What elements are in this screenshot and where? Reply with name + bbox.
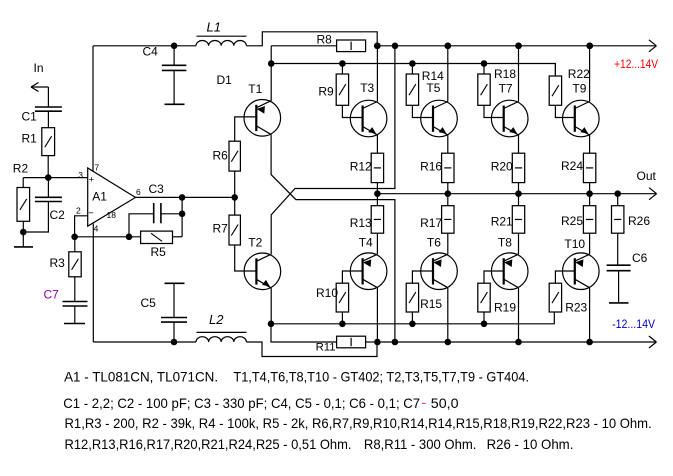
svg-text:R2: R2: [13, 162, 29, 176]
wire T5 collector: [447, 46, 449, 102]
wire In to C1: [47, 87, 49, 107]
node bottom rail col2: [445, 339, 452, 346]
svg-text:T10: T10: [564, 237, 585, 251]
node base rail R14: [409, 60, 416, 67]
wire R19 to base rail: [483, 312, 485, 324]
wire R17 to T6 emitter: [447, 233, 449, 254]
svg-text:R1: R1: [22, 132, 38, 146]
node base rail R9: [339, 60, 346, 67]
svg-text:-12...14V: -12...14V: [612, 319, 655, 331]
capacitor C4: [162, 64, 187, 66]
capacitor C7: [63, 301, 88, 303]
node base rail R18: [481, 60, 488, 67]
wire R3 to C7: [74, 277, 76, 302]
resistor R7: [229, 215, 240, 245]
svg-text:T8: T8: [498, 235, 512, 249]
wire T3 collector: [376, 46, 378, 102]
wire R10 to base rail: [341, 312, 343, 324]
wire T7 emitter: [518, 135, 520, 153]
capacitor C1: [35, 106, 62, 108]
node bottom rail col4: [586, 339, 593, 346]
wire to R2: [22, 178, 24, 188]
svg-text:T2: T2: [248, 235, 262, 249]
wire T9 collector: [589, 46, 591, 102]
transistor T8: [491, 253, 528, 290]
capacitor C2 top lead: [47, 178, 49, 198]
wire R25 to T10 emitter: [589, 233, 591, 254]
node +V rail col3: [515, 43, 522, 50]
wire R6 to node: [234, 171, 236, 197]
svg-text:C2: C2: [50, 208, 66, 222]
svg-text:R24: R24: [561, 159, 583, 173]
wire R15 to base rail: [411, 312, 413, 324]
node C3 right junction: [179, 211, 186, 218]
capacitor C5: [161, 317, 187, 319]
wire R20 to out rail: [518, 183, 520, 194]
transistor T5: [421, 100, 458, 137]
resistor R26: [612, 206, 624, 234]
wire R26 top lead: [617, 194, 619, 206]
resistor R15: [406, 283, 418, 312]
svg-text:3: 3: [78, 170, 83, 180]
svg-text:C6: C6: [632, 251, 648, 265]
wire C2 to gnd node: [23, 202, 48, 233]
svg-text:A1 - TL081CN, TL071CN.: A1 - TL081CN, TL071CN.: [64, 369, 218, 385]
node out rail col2: [445, 190, 452, 197]
svg-text:T7: T7: [499, 82, 513, 96]
svg-text:R18: R18: [494, 67, 516, 81]
svg-text:R26 - 10 Ohm.: R26 - 10 Ohm.: [487, 436, 574, 452]
svg-text:2: 2: [76, 206, 81, 216]
wire pin7 rail: [93, 45, 196, 47]
wire R23 to T10 base: [555, 271, 574, 283]
wire C4 bottom lead: [173, 70, 175, 104]
wire base rail node to R11: [271, 324, 337, 342]
svg-text:R21: R21: [491, 215, 513, 229]
resistor R25: [583, 206, 595, 234]
svg-text:Out: Out: [637, 169, 657, 183]
wire out rail to R21: [518, 194, 520, 206]
transistor T4: [350, 253, 387, 290]
node base rail left: [268, 60, 275, 67]
wire base rail to R9: [341, 64, 343, 75]
resistor R10: [336, 283, 348, 312]
transistor T6: [421, 253, 458, 290]
capacitor C5 top lead: [173, 283, 175, 317]
node R5/C3 left junction: [126, 234, 133, 241]
resistor R16: [442, 153, 454, 182]
pin 2 wire: [75, 216, 88, 237]
wire R18 to T7 base: [484, 105, 504, 117]
resistor R18: [478, 74, 490, 105]
op-amp A1: [88, 168, 136, 226]
svg-text:4: 4: [94, 223, 99, 233]
resistor R20: [512, 153, 524, 182]
svg-text:R15: R15: [420, 297, 442, 311]
wire Out rail: [377, 193, 656, 195]
resistor R3: [69, 252, 81, 277]
svg-text:T1: T1: [248, 82, 262, 96]
svg-text:T5: T5: [426, 81, 440, 95]
resistor R13: [371, 206, 383, 234]
ground C6: [609, 302, 629, 304]
capacitor C3: [153, 203, 155, 223]
node R6/R7 junction: [231, 194, 238, 201]
svg-text:R16: R16: [420, 159, 442, 173]
node junction R1/C2/pin3: [45, 174, 52, 181]
wire node to R7: [234, 197, 236, 215]
svg-text:T9: T9: [572, 82, 586, 96]
wire R26 to C6: [617, 233, 619, 265]
svg-text:T4: T4: [359, 235, 373, 249]
node -V rail bypass junction: [392, 339, 399, 346]
svg-text:R5: R5: [151, 245, 167, 259]
node bottom base rail left: [268, 321, 275, 328]
resistor R12: [371, 153, 383, 182]
transistor T2: [244, 253, 281, 290]
wire base rail to R22: [554, 64, 556, 77]
svg-text:R12,R13,R16,R17,R20,R21,R24,R2: R12,R13,R16,R17,R20,R21,R24,R25 - 0,51 O…: [65, 436, 352, 452]
wire T2 emitter: [270, 288, 272, 324]
svg-text:T6: T6: [427, 235, 441, 249]
ground C7: [64, 323, 85, 325]
wire pin3 net: [23, 177, 88, 179]
svg-text:T1,T4,T6,T8,T10 - GT402; T2,T3: T1,T4,T6,T8,T10 - GT402; T2,T3,T5,T7,T9 …: [233, 369, 529, 385]
wire R1 to node: [47, 156, 49, 178]
capacitor C4 top lead: [173, 46, 175, 66]
wire R11 right lead: [366, 341, 377, 343]
wire T5 emitter: [447, 135, 449, 153]
node bottom base rail R15: [409, 321, 416, 328]
resistor R5: [141, 231, 173, 243]
svg-text:-: -: [422, 394, 427, 410]
wire T9 emitter: [589, 135, 591, 153]
svg-text:R6: R6: [213, 148, 229, 162]
wire T8 collector: [518, 288, 520, 342]
node output C3 junction: [179, 194, 186, 201]
node +V rail col1: [374, 43, 381, 50]
svg-text:L2: L2: [209, 312, 224, 327]
wire T1 base: [235, 117, 257, 141]
wire pin4 rail: [93, 341, 196, 343]
inductor L2: [196, 337, 246, 342]
capacitor C6: [607, 264, 631, 266]
node C5 junction: [171, 339, 178, 346]
node bottom base rail R10: [339, 321, 346, 328]
transistor T7: [491, 100, 528, 137]
svg-text:+: +: [89, 174, 95, 185]
pin 7 stub: [92, 46, 94, 172]
wire op-amp output: [136, 196, 235, 198]
wire L1 bypass over R8: [246, 32, 377, 46]
svg-text:R8,R11 - 300 Ohm.: R8,R11 - 300 Ohm.: [364, 436, 477, 452]
node +V rail col2: [445, 43, 452, 50]
wire R19 to T8 base: [484, 271, 504, 283]
wire T10 collector: [589, 288, 591, 342]
resistor R11: [337, 336, 366, 348]
svg-text:R12: R12: [350, 159, 372, 173]
svg-text:C5: C5: [141, 296, 157, 310]
node out rail col1: [374, 190, 381, 197]
wire pin2 node to R3: [74, 237, 76, 252]
ground: [22, 232, 24, 247]
wire top base rail: [271, 64, 555, 77]
wire C3/R5 to output: [181, 197, 183, 236]
wire base rail to R18: [483, 64, 485, 75]
svg-text:R22: R22: [568, 67, 590, 81]
wire pin2 to R5: [75, 236, 141, 238]
node bottom rail col1: [374, 339, 381, 346]
pin 4 stub: [92, 224, 94, 342]
svg-text:R23: R23: [565, 301, 587, 315]
svg-text:A1: A1: [92, 190, 107, 204]
node pin2 junction: [71, 234, 78, 241]
svg-text:R17: R17: [420, 216, 442, 230]
resistor R9: [336, 74, 348, 105]
wire R22 to T9 base: [555, 105, 574, 117]
svg-text:R11: R11: [316, 342, 336, 354]
wire T3 emitter: [376, 135, 378, 153]
svg-text:7: 7: [94, 162, 99, 172]
svg-text:C4: C4: [143, 45, 159, 59]
node bottom base rail R19: [481, 321, 488, 328]
svg-text:R8: R8: [317, 32, 333, 46]
node C4 junction: [171, 43, 178, 50]
wire -V rail: [377, 341, 656, 343]
svg-text:L1: L1: [207, 19, 221, 34]
resistor R8: [337, 40, 366, 52]
svg-text:R26: R26: [628, 214, 650, 228]
svg-text:R1,R3 - 200, R2 - 39k, R4 - 10: R1,R3 - 200, R2 - 39k, R4 - 100k, R5 - 2…: [65, 415, 652, 431]
node In input terminal arrow: [31, 86, 48, 88]
svg-text:R7: R7: [213, 222, 229, 236]
node +V rail dots: [374, 43, 381, 50]
svg-text:50,0: 50,0: [431, 395, 459, 411]
svg-text:D1: D1: [217, 73, 233, 87]
wire out rail to R25: [589, 194, 591, 206]
wire R2 to gnd node: [22, 221, 24, 232]
node +V rail col4: [586, 43, 593, 50]
resistor R17: [442, 206, 454, 234]
node out rail col3: [515, 190, 522, 197]
wire R9 to T3 base: [342, 105, 362, 117]
svg-text:C7: C7: [44, 288, 60, 302]
svg-text:C3: C3: [149, 182, 165, 196]
svg-text:R19: R19: [494, 301, 516, 315]
svg-text:6: 6: [136, 187, 141, 197]
svg-text:R25: R25: [561, 214, 583, 228]
resistor R24: [583, 153, 595, 182]
wire C1 to R1: [47, 111, 49, 128]
wire T4 collector: [376, 288, 378, 342]
wire R21 to T8 emitter: [518, 233, 520, 254]
wire R16 to out rail: [447, 183, 449, 194]
resistor R19: [478, 283, 490, 312]
resistor R2: [17, 188, 30, 222]
capacitor C2: [35, 196, 62, 198]
wire bottom base rail: [271, 312, 554, 324]
svg-text:In: In: [34, 61, 44, 75]
wire R7 to T2 base: [235, 245, 257, 271]
svg-text:R9: R9: [318, 85, 334, 99]
svg-text:R13: R13: [350, 216, 372, 230]
resistor R1: [42, 128, 55, 156]
wire R15 to T6 base: [412, 271, 433, 283]
resistor R22: [549, 76, 561, 105]
node R26 junction: [614, 190, 621, 197]
resistor R14: [406, 74, 418, 105]
wire R10 to T4 base: [342, 271, 362, 283]
svg-text:R10: R10: [316, 286, 338, 300]
resistor R6: [229, 141, 240, 171]
transistor T3: [350, 100, 387, 137]
resistor R23: [549, 283, 561, 312]
svg-text:R20: R20: [491, 160, 513, 174]
transistor T9: [563, 100, 600, 137]
wire R24 to out rail: [589, 183, 591, 194]
wire out rail to R17: [447, 194, 449, 206]
svg-text:R3: R3: [50, 256, 66, 270]
transistor T1: [244, 100, 281, 137]
wire C6 bottom lead: [618, 271, 620, 303]
svg-text:C1: C1: [22, 110, 38, 124]
wire T1 emitter to R8: [270, 46, 272, 101]
inductor L1: [196, 41, 246, 46]
wire +V rail: [377, 45, 656, 47]
wire R8 left lead: [271, 45, 336, 47]
wire R12 to out rail: [376, 183, 378, 194]
wire T1 collector crossover: [271, 134, 395, 342]
wire out rail to R13: [376, 194, 378, 206]
svg-text:T3: T3: [360, 81, 374, 95]
node out rail col4: [586, 190, 593, 197]
node gnd junction: [20, 229, 27, 236]
wire L2 bypass under R11: [246, 342, 377, 357]
wire base rail to R14: [411, 64, 413, 75]
wire T2 collector crossover: [271, 46, 395, 255]
resistor R21: [512, 206, 524, 234]
wire C3 right lead: [161, 213, 182, 215]
node bottom rail col3: [515, 339, 522, 346]
wire T6 collector: [447, 288, 449, 342]
svg-text:18: 18: [107, 210, 117, 220]
wire R5 right lead: [173, 236, 183, 238]
svg-text:C1 - 2,2; C2 - 100 pF; C3 - 33: C1 - 2,2; C2 - 100 pF; C3 - 330 pF; C4, …: [63, 395, 420, 411]
wire R13 to T4 emitter: [376, 233, 378, 254]
wire T7 collector: [518, 46, 520, 102]
transistor T10: [563, 253, 600, 290]
ground C4: [165, 103, 185, 105]
wire C7 to gnd: [74, 306, 76, 324]
wire C3 left lead: [129, 214, 154, 237]
wire C5 bottom lead: [173, 322, 175, 342]
svg-text:+12...14V: +12...14V: [614, 59, 658, 71]
wire R14 to T5 base: [412, 105, 433, 117]
svg-text:−: −: [88, 208, 94, 219]
ground C5: [165, 282, 185, 284]
